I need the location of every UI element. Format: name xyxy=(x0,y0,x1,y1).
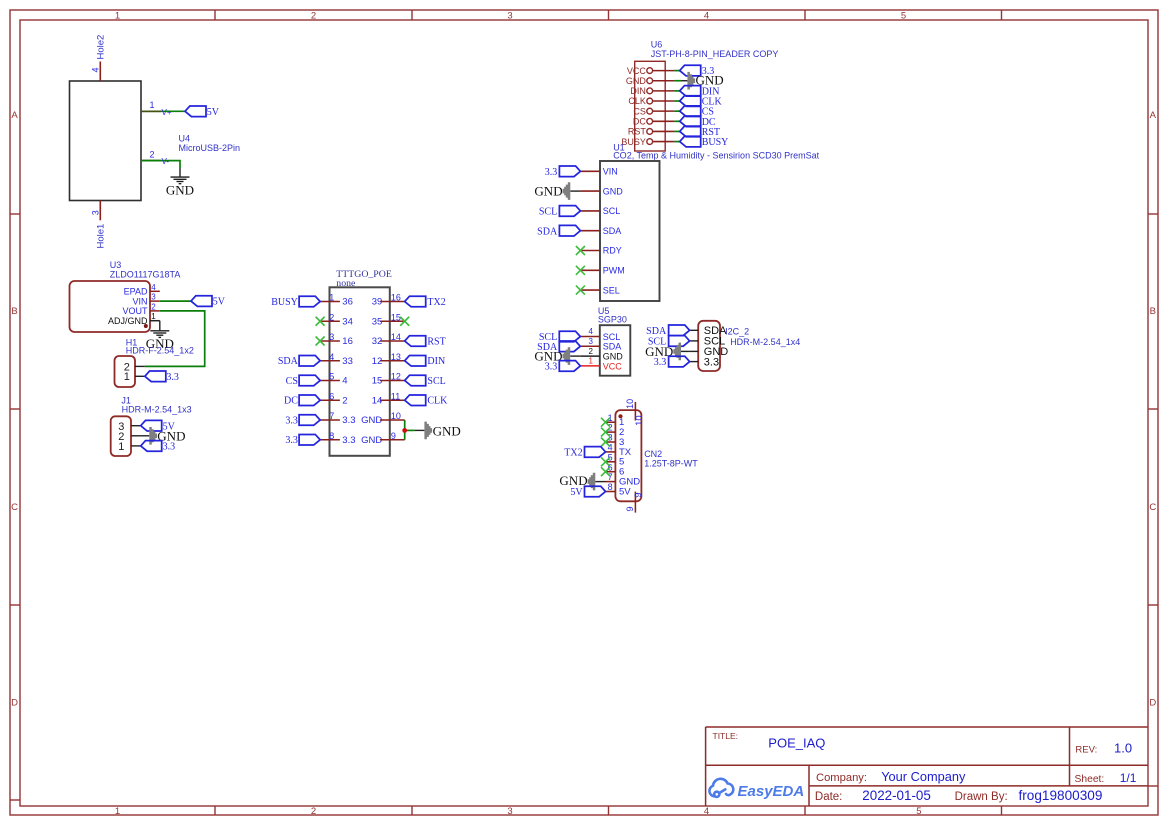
svg-text:SDA: SDA xyxy=(278,356,299,367)
svg-text:3: 3 xyxy=(507,806,512,817)
svg-text:BUSY: BUSY xyxy=(702,137,729,148)
svg-text:CLK: CLK xyxy=(628,96,646,106)
svg-text:9: 9 xyxy=(633,493,644,498)
svg-text:12: 12 xyxy=(391,372,401,382)
svg-text:10: 10 xyxy=(634,415,645,426)
svg-text:3: 3 xyxy=(507,10,512,21)
svg-text:3.3: 3.3 xyxy=(704,356,719,368)
svg-text:1: 1 xyxy=(115,10,120,21)
svg-text:2: 2 xyxy=(589,347,594,356)
svg-text:BUSY: BUSY xyxy=(621,137,646,147)
svg-text:SDA: SDA xyxy=(603,226,622,236)
svg-text:15: 15 xyxy=(391,312,401,322)
svg-text:1.25T-8P-WT: 1.25T-8P-WT xyxy=(644,458,698,468)
svg-text:JST-PH-8-PIN_HEADER COPY: JST-PH-8-PIN_HEADER COPY xyxy=(651,49,779,59)
svg-text:REV:: REV: xyxy=(1075,745,1097,756)
svg-text:RST: RST xyxy=(628,127,647,137)
svg-text:1: 1 xyxy=(118,441,124,453)
svg-text:CS: CS xyxy=(633,106,646,116)
svg-text:DC: DC xyxy=(284,396,298,407)
svg-text:3.3: 3.3 xyxy=(166,372,179,383)
svg-text:A: A xyxy=(1150,110,1157,121)
svg-text:3.3: 3.3 xyxy=(545,167,558,178)
svg-text:5: 5 xyxy=(901,10,906,21)
svg-text:3: 3 xyxy=(329,332,334,342)
svg-text:1: 1 xyxy=(329,293,334,303)
svg-text:3.3: 3.3 xyxy=(285,415,298,426)
svg-text:Hole1: Hole1 xyxy=(95,224,106,249)
svg-text:3: 3 xyxy=(589,337,594,346)
svg-text:ZLDO1117G18TA: ZLDO1117G18TA xyxy=(110,270,181,280)
svg-text:1.0: 1.0 xyxy=(1114,741,1132,756)
svg-text:5: 5 xyxy=(916,806,921,817)
svg-text:SCL: SCL xyxy=(603,332,621,342)
svg-text:GND: GND xyxy=(361,415,382,426)
svg-text:8: 8 xyxy=(608,482,613,492)
svg-text:frog19800309: frog19800309 xyxy=(1019,788,1103,803)
svg-text:EPAD: EPAD xyxy=(124,287,148,297)
svg-text:TITLE:: TITLE: xyxy=(713,731,739,741)
svg-text:EasyEDA: EasyEDA xyxy=(738,783,805,800)
svg-text:U3: U3 xyxy=(110,260,122,270)
svg-text:36: 36 xyxy=(342,297,353,308)
svg-text:5V: 5V xyxy=(570,487,583,498)
svg-text:SCL: SCL xyxy=(427,376,445,387)
svg-text:D: D xyxy=(11,697,18,708)
svg-text:2: 2 xyxy=(329,312,334,322)
svg-text:BUSY: BUSY xyxy=(271,297,298,308)
svg-text:6: 6 xyxy=(329,391,334,401)
svg-text:9: 9 xyxy=(625,506,635,511)
svg-text:14: 14 xyxy=(391,332,401,342)
svg-text:GND: GND xyxy=(361,435,382,446)
svg-text:4: 4 xyxy=(342,376,347,387)
svg-text:SDA: SDA xyxy=(646,326,667,337)
svg-text:Drawn By:: Drawn By: xyxy=(955,791,1008,803)
svg-text:3.3: 3.3 xyxy=(163,442,176,453)
svg-text:DIN: DIN xyxy=(427,356,445,367)
svg-text:4: 4 xyxy=(151,283,156,292)
svg-text:HDR-M-2.54_1x3: HDR-M-2.54_1x3 xyxy=(122,405,192,415)
svg-text:Sheet:: Sheet: xyxy=(1075,774,1105,785)
svg-text:PWM: PWM xyxy=(603,266,625,276)
svg-text:1: 1 xyxy=(608,413,613,423)
svg-text:4: 4 xyxy=(329,352,334,362)
svg-text:33: 33 xyxy=(342,356,353,367)
svg-text:Date:: Date: xyxy=(815,791,843,803)
svg-text:2: 2 xyxy=(311,10,316,21)
svg-text:RDY: RDY xyxy=(603,246,622,256)
svg-text:SDA: SDA xyxy=(537,226,558,237)
svg-text:3.3: 3.3 xyxy=(342,415,355,426)
svg-text:DC: DC xyxy=(633,117,646,127)
svg-text:1/1: 1/1 xyxy=(1120,771,1137,785)
svg-text:CO2, Temp & Humidity - Sensiri: CO2, Temp & Humidity - Sensirion SCD30 P… xyxy=(613,150,819,160)
svg-text:10: 10 xyxy=(391,411,401,421)
svg-text:CLK: CLK xyxy=(427,396,448,407)
svg-text:Hole2: Hole2 xyxy=(95,35,106,60)
svg-text:1: 1 xyxy=(115,806,120,817)
svg-text:5V: 5V xyxy=(619,486,631,497)
svg-text:VIN: VIN xyxy=(132,296,147,306)
svg-text:SCL: SCL xyxy=(603,206,621,216)
svg-text:A: A xyxy=(11,110,18,121)
svg-text:2: 2 xyxy=(311,806,316,817)
svg-text:14: 14 xyxy=(372,395,383,406)
svg-text:16: 16 xyxy=(391,293,401,303)
svg-text:2: 2 xyxy=(151,302,156,311)
svg-text:GND: GND xyxy=(166,182,194,197)
svg-text:HDR-F-2.54_1x2: HDR-F-2.54_1x2 xyxy=(126,346,194,356)
svg-text:7: 7 xyxy=(329,411,334,421)
svg-text:1: 1 xyxy=(589,357,594,366)
svg-text:4: 4 xyxy=(91,67,101,72)
svg-text:35: 35 xyxy=(372,316,383,327)
svg-text:TX2: TX2 xyxy=(564,447,582,458)
svg-text:GND: GND xyxy=(433,423,461,438)
svg-text:VOUT: VOUT xyxy=(122,306,148,316)
svg-text:5: 5 xyxy=(329,372,334,382)
svg-text:V-: V- xyxy=(162,157,170,166)
svg-text:DIN: DIN xyxy=(630,86,646,96)
svg-text:39: 39 xyxy=(372,297,383,308)
svg-text:B: B xyxy=(11,306,17,317)
svg-text:SGP30: SGP30 xyxy=(598,315,627,325)
svg-text:V+: V+ xyxy=(162,108,172,117)
svg-text:GND: GND xyxy=(603,352,624,362)
svg-text:3: 3 xyxy=(151,293,156,302)
svg-text:5: 5 xyxy=(608,452,613,462)
svg-text:3: 3 xyxy=(91,210,101,215)
svg-text:SEL: SEL xyxy=(603,285,620,295)
svg-text:CN2: CN2 xyxy=(644,449,662,459)
svg-text:3.3: 3.3 xyxy=(654,357,667,368)
svg-text:ADJ/GND: ADJ/GND xyxy=(108,316,148,326)
svg-text:5V: 5V xyxy=(213,297,226,308)
svg-text:3.3: 3.3 xyxy=(545,362,558,373)
svg-text:Your Company: Your Company xyxy=(881,769,966,784)
svg-text:10: 10 xyxy=(625,399,635,409)
svg-text:13: 13 xyxy=(391,352,401,362)
svg-text:HDR-M-2.54_1x4: HDR-M-2.54_1x4 xyxy=(730,337,800,347)
svg-text:4: 4 xyxy=(589,327,594,336)
svg-text:5V: 5V xyxy=(207,107,220,118)
svg-text:11: 11 xyxy=(391,391,400,401)
svg-text:34: 34 xyxy=(342,316,353,327)
svg-text:I2C_2: I2C_2 xyxy=(725,327,749,337)
svg-text:1: 1 xyxy=(150,100,155,110)
svg-text:GND: GND xyxy=(626,76,647,86)
svg-text:3.3: 3.3 xyxy=(342,435,355,446)
svg-text:GND: GND xyxy=(559,473,587,488)
svg-text:GND: GND xyxy=(534,184,562,199)
svg-text:2: 2 xyxy=(342,395,347,406)
svg-text:VCC: VCC xyxy=(603,361,623,371)
svg-text:4: 4 xyxy=(704,10,709,21)
svg-text:9: 9 xyxy=(391,431,396,441)
svg-text:Company:: Company: xyxy=(816,772,867,784)
svg-text:POE_IAQ: POE_IAQ xyxy=(768,736,825,751)
svg-text:U6: U6 xyxy=(651,40,663,50)
svg-text:1: 1 xyxy=(124,371,130,383)
svg-text:D: D xyxy=(1149,697,1156,708)
svg-text:32: 32 xyxy=(372,336,383,347)
svg-text:12: 12 xyxy=(372,356,383,367)
svg-text:C: C xyxy=(1149,502,1156,513)
svg-text:2022-01-05: 2022-01-05 xyxy=(862,788,931,803)
svg-text:16: 16 xyxy=(342,336,353,347)
svg-text:RST: RST xyxy=(427,336,445,347)
svg-text:C: C xyxy=(11,502,18,513)
svg-text:MicroUSB-2Pin: MicroUSB-2Pin xyxy=(179,143,241,153)
svg-text:1: 1 xyxy=(151,312,156,321)
svg-text:CS: CS xyxy=(286,376,298,387)
svg-text:3.3: 3.3 xyxy=(285,435,298,446)
svg-text:15: 15 xyxy=(372,376,383,387)
svg-text:SCL: SCL xyxy=(539,207,557,218)
svg-text:TX2: TX2 xyxy=(427,297,445,308)
svg-text:4: 4 xyxy=(704,806,709,817)
svg-text:B: B xyxy=(1150,306,1156,317)
svg-text:SDA: SDA xyxy=(603,342,622,352)
svg-text:VIN: VIN xyxy=(603,167,618,177)
svg-text:2: 2 xyxy=(150,150,155,160)
svg-text:8: 8 xyxy=(329,431,334,441)
svg-text:GND: GND xyxy=(603,186,624,196)
svg-text:VCC: VCC xyxy=(627,66,647,76)
